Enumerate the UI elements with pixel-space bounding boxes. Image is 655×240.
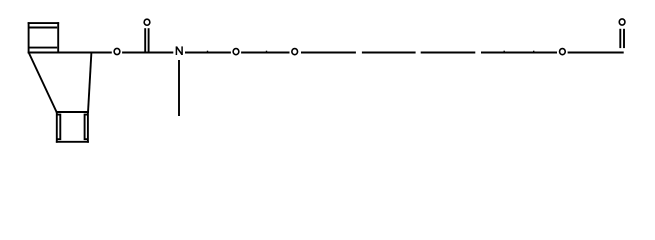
ring A right edge (57, 22, 59, 52)
atom O2 carbonyl oxygen (144, 19, 150, 25)
carbonyl C=O double bond line 2 (148, 28, 150, 51)
vertex tick 1 (207, 50, 208, 52)
atom N nitrogen (176, 46, 182, 55)
ring B bottom edge (56, 141, 89, 143)
bond segment 4 to O5 (481, 52, 557, 54)
ring A top edge (28, 22, 59, 24)
ring B left edge (56, 111, 58, 143)
atom O3 ether oxygen (233, 49, 239, 55)
atom O5 ether oxygen (560, 49, 566, 55)
ring A inner double bond top (30, 27, 58, 29)
vertex tick 2 (266, 50, 267, 52)
ring B right edge (87, 111, 89, 143)
vertex tick 3 (504, 50, 505, 52)
bond O5 to aldehyde C (568, 52, 624, 54)
ring A left edge (28, 22, 30, 53)
aldehyde C=O double bond line 1 (619, 29, 621, 48)
ring B inner double bond right (85, 115, 88, 140)
ring A inner double bond bottom (30, 47, 58, 49)
atom O6 aldehyde oxygen (619, 19, 625, 25)
vertex tick 4 (533, 50, 534, 52)
N-methyl bond (178, 60, 180, 116)
main horizontal bond line through ring A bottom to O1 (28, 52, 112, 54)
atom O1 ester oxygen (114, 48, 120, 54)
carbonyl C=O double bond line 1 (144, 28, 146, 51)
bond segment 2 (362, 52, 416, 54)
bond O1 to carbamate C to N (122, 52, 173, 54)
ring B top edge (56, 111, 89, 113)
ring C right side wire (88, 53, 91, 113)
bond N to O3 (185, 52, 231, 54)
bond O4 to C (301, 52, 356, 54)
bond O3 to O4 (241, 52, 289, 54)
aldehyde C=O double bond line 2 (623, 29, 625, 48)
atom O4 ether oxygen (292, 49, 298, 55)
ring C left diagonal wire (29, 53, 57, 113)
bond segment 3 (421, 52, 476, 54)
ring B inner double bond left (57, 115, 61, 140)
